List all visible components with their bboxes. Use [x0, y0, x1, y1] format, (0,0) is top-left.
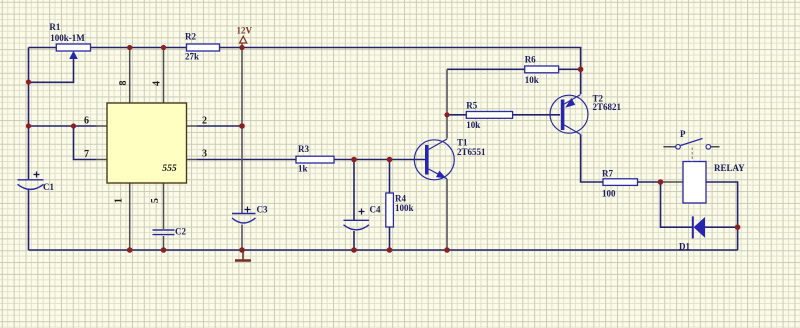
svg-text:C2: C2: [175, 227, 186, 237]
svg-text:27k: 27k: [185, 52, 199, 62]
svg-text:C4: C4: [370, 205, 381, 215]
svg-text:R5: R5: [466, 101, 477, 111]
svg-text:R6: R6: [525, 55, 536, 65]
svg-text:100: 100: [602, 189, 616, 199]
svg-text:7: 7: [84, 149, 89, 160]
svg-text:1: 1: [114, 198, 125, 203]
svg-text:12V: 12V: [237, 26, 253, 36]
svg-text:2: 2: [202, 116, 207, 127]
svg-text:6: 6: [84, 116, 89, 127]
svg-text:2T6821: 2T6821: [593, 102, 622, 112]
svg-text:100k-1M: 100k-1M: [50, 33, 85, 43]
svg-text:5: 5: [150, 198, 161, 203]
svg-text:R2: R2: [185, 32, 196, 42]
svg-text:10k: 10k: [525, 75, 539, 85]
svg-text:555: 555: [162, 163, 177, 174]
svg-text:R3: R3: [298, 144, 309, 154]
svg-text:100k: 100k: [395, 203, 414, 213]
svg-text:3: 3: [202, 149, 207, 160]
svg-text:R7: R7: [602, 169, 613, 179]
svg-text:4: 4: [151, 81, 162, 86]
svg-text:2T6551: 2T6551: [457, 147, 486, 157]
svg-text:C3: C3: [257, 205, 268, 215]
svg-text:1k: 1k: [298, 164, 308, 174]
svg-text:10k: 10k: [466, 120, 480, 130]
svg-text:C1: C1: [43, 182, 54, 192]
svg-text:D1: D1: [679, 242, 690, 252]
svg-text:R4: R4: [395, 194, 406, 204]
svg-text:R1: R1: [49, 22, 60, 32]
svg-text:RELAY: RELAY: [714, 163, 745, 173]
svg-text:8: 8: [118, 81, 129, 86]
svg-text:P: P: [680, 129, 686, 139]
svg-text:T1: T1: [457, 138, 468, 148]
